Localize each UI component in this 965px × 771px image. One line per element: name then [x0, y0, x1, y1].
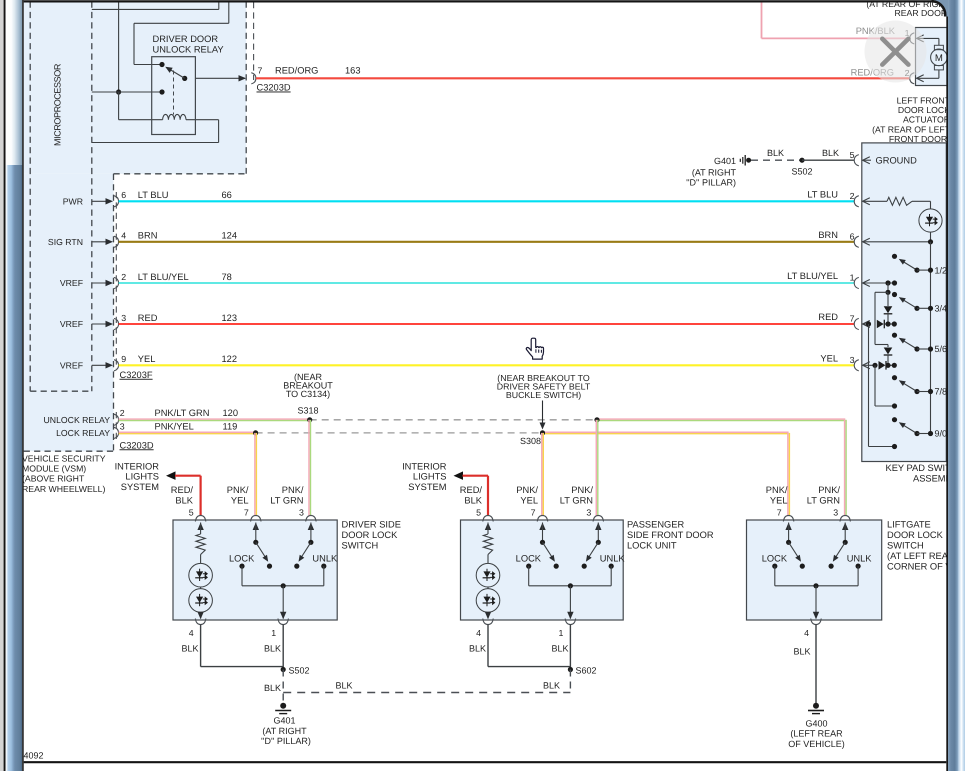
- arrow VREF to connector: [92, 280, 113, 286]
- svg-text:5: 5: [189, 507, 194, 517]
- wire label BLK liftgate: [793, 647, 810, 657]
- keypad switch 1/2 blade: [899, 259, 917, 270]
- keypad switch 5/6 blade: [899, 338, 917, 349]
- arrow VREF to connector: [92, 362, 113, 368]
- schematic top border: [24, 0, 933, 2]
- keypad pin7 wire: [863, 320, 897, 329]
- wire label BRN: [138, 231, 158, 241]
- svg-text:C3203D: C3203D: [257, 83, 291, 93]
- wire label YEL right: [820, 353, 838, 363]
- label driver side door lock switch: [342, 519, 401, 550]
- svg-text:REAR DOOR): REAR DOOR): [894, 8, 950, 18]
- relay K1 coil: [163, 114, 186, 119]
- svg-text:7: 7: [777, 507, 782, 517]
- wire label BLK run (2): [543, 681, 560, 691]
- passenger door lock unit lamp LED 2: [476, 555, 500, 613]
- VSM dashed border step: [114, 173, 247, 175]
- keypad switch 3/4 blade: [899, 297, 917, 308]
- svg-text:LT GRN: LT GRN: [270, 495, 303, 505]
- ground G400: [808, 703, 824, 714]
- pin 6 keypad label: [850, 231, 855, 241]
- wire label RED: [138, 313, 158, 323]
- ground G401 mini symbol: [740, 155, 751, 166]
- splice S318 dashed segment: [310, 419, 597, 421]
- svg-text:BLK: BLK: [822, 148, 839, 158]
- svg-text:VEHICLE SECURITY: VEHICLE SECURITY: [22, 454, 106, 464]
- passenger door lock unit pin 5 entry arrow: [485, 523, 491, 535]
- wire BLK dashed G401 to S502: [751, 159, 802, 161]
- svg-text:SIDE FRONT DOOR: SIDE FRONT DOOR: [627, 530, 714, 540]
- hand cursor: [526, 338, 543, 359]
- passenger door lock unit pin 5 label: [476, 507, 481, 517]
- pin 9 label: [121, 354, 126, 364]
- wire PNK/YEL 119 segment 1: [119, 432, 256, 434]
- relay K1 contact output: [182, 76, 187, 81]
- wire label LT BLU right: [807, 189, 838, 199]
- wire RED 123: [119, 323, 855, 325]
- svg-text:YEL: YEL: [231, 495, 249, 505]
- wire PNK/LT GRN drop liftgate: [845, 420, 847, 516]
- svg-text:LOCK: LOCK: [516, 554, 542, 564]
- wire from above to relay switch (L path): [134, 2, 229, 65]
- node PNK/LT GRN passenger branch: [594, 417, 599, 422]
- svg-text:BLK: BLK: [543, 681, 560, 691]
- svg-text:SWITCH: SWITCH: [887, 541, 924, 551]
- label liftgate door lock switch: [887, 519, 965, 571]
- wire BLK S502 to keypad: [802, 159, 854, 161]
- keypad switch 3/4 lower contact: [914, 306, 933, 311]
- liftgate door lock switch LOCK pivot: [786, 540, 791, 545]
- wire relay common feed: [92, 91, 162, 93]
- relay K1 actuation dashed line: [173, 71, 175, 115]
- liftgate door lock switch UNLK contacts: [829, 564, 861, 569]
- label vehicle security module: [22, 454, 106, 494]
- microprocessor label: [53, 63, 63, 146]
- keypad pin 6 arrow: [863, 238, 870, 245]
- connector bracket pin 9: [114, 360, 119, 371]
- page number 4092: [24, 750, 44, 760]
- keypad connector bracket pin 7: [854, 318, 859, 329]
- driver door lock switch LOCK blade: [256, 542, 268, 561]
- keypad pin3 branch to 7/8 contact: [875, 365, 897, 408]
- keypad switch 1/2 lower contact: [914, 268, 933, 273]
- splice S308 node: [520, 430, 545, 446]
- splice S502: [281, 666, 310, 676]
- keypad label 3/4: [935, 304, 948, 314]
- keypad switch 7/8 blade: [899, 380, 917, 391]
- actuator M1 connector bracket pin 2: [910, 73, 915, 84]
- wire BLK driver pin1: [282, 625, 284, 670]
- connector bracket pin 3: [114, 318, 119, 329]
- driver door lock switch pin 7 entry arrow: [253, 523, 259, 543]
- keypad connector bracket pin 5: [854, 155, 859, 166]
- connector bracket pin 2 unlock: [114, 414, 119, 425]
- keypad connector bracket pin 1: [854, 277, 859, 288]
- svg-text:LIGHTS: LIGHTS: [125, 472, 159, 482]
- keypad switch 9/0 upper contact: [892, 417, 897, 422]
- VSM dashed border right edge lower: [113, 174, 115, 451]
- window chrome left outer black line: [4, 0, 6, 771]
- driver door lock switch lamp exit arrow: [197, 612, 203, 620]
- svg-text:163: 163: [345, 66, 361, 76]
- svg-text:GROUND: GROUND: [876, 156, 918, 166]
- wire label BLK driver 1: [264, 644, 281, 654]
- pin 3 label: [121, 313, 126, 323]
- driver door lock switch pin 1 label: [271, 628, 276, 638]
- svg-text:S502: S502: [289, 666, 310, 676]
- wire label BLK to G401: [264, 683, 281, 693]
- label G401 at right D pillar (bottom): [261, 716, 311, 747]
- svg-text:BLK: BLK: [181, 644, 198, 654]
- passenger door lock unit label LOCK: [516, 554, 542, 564]
- wire label PNK/YEL: [155, 422, 194, 432]
- keypad connector bracket pin 2: [854, 196, 859, 207]
- svg-text:BRN: BRN: [818, 230, 838, 240]
- label VREF pin 2: [60, 278, 83, 288]
- driver door lock switch pin 5 label: [189, 507, 194, 517]
- driver door lock switch label LOCK: [229, 554, 255, 564]
- svg-text:(AT RIGHT: (AT RIGHT: [262, 726, 307, 736]
- svg-text:BUCKLE SWITCH): BUCKLE SWITCH): [506, 390, 581, 400]
- svg-text:G401: G401: [273, 716, 295, 726]
- passenger door lock unit LOCK contacts: [526, 564, 559, 569]
- svg-text:7: 7: [244, 507, 249, 517]
- liftgate door lock switch UNLK pivot: [843, 540, 848, 545]
- keypad switch 3/4 upper contact: [892, 292, 897, 297]
- wire label BLK passenger 4: [469, 644, 486, 654]
- passenger door lock unit box: [461, 520, 624, 620]
- svg-text:INTERIOR: INTERIOR: [115, 461, 160, 471]
- svg-text:2: 2: [120, 408, 125, 418]
- arrow to S308: [540, 401, 546, 430]
- connector C3203F label: [120, 370, 153, 380]
- keypad resistor R1: [863, 197, 931, 209]
- pin 3 keypad label: [850, 355, 855, 365]
- svg-text:S502: S502: [791, 167, 812, 177]
- actuator M1 wires to motor: [938, 38, 940, 78]
- circuit number 119: [223, 422, 238, 432]
- connector C3203F dashed lead-line: [115, 192, 117, 369]
- connector bracket pin 6: [114, 196, 119, 207]
- actuator M1 box: [916, 28, 956, 86]
- keypad long left bus: [869, 324, 898, 449]
- circuit number 78: [222, 272, 232, 282]
- wire label RED/ORG right: [851, 68, 894, 78]
- svg-text:3: 3: [586, 507, 591, 517]
- svg-text:PNK/YEL: PNK/YEL: [155, 422, 194, 432]
- wire label PNK/BLK: [856, 26, 896, 36]
- driver door lock switch pin 3 label: [299, 507, 304, 517]
- liftgate door lock switch LOCK blade: [789, 542, 801, 561]
- svg-text:RED: RED: [818, 312, 838, 322]
- arrow VREF to connector: [92, 321, 113, 327]
- pin 2 label: [121, 272, 126, 282]
- keypad pin 1 arrow: [863, 280, 870, 287]
- svg-text:TO C3134): TO C3134): [286, 389, 330, 399]
- svg-text:2: 2: [121, 272, 126, 282]
- svg-text:LOCK UNIT: LOCK UNIT: [627, 541, 677, 551]
- liftgate door lock switch pin 3 label: [833, 507, 838, 517]
- pin 3 label lock: [120, 422, 125, 432]
- svg-text:(ABOVE RIGHT: (ABOVE RIGHT: [22, 474, 85, 484]
- window chrome rounded top-right corner: [932, 0, 949, 17]
- keypad connector bracket pin 6: [854, 236, 859, 247]
- svg-text:SYSTEM: SYSTEM: [408, 482, 446, 492]
- liftgate door lock switch LOCK contacts: [772, 564, 805, 569]
- svg-text:S308: S308: [520, 436, 541, 446]
- pin 7 label: [258, 66, 263, 76]
- wire LT BLU 66: [119, 200, 855, 202]
- label PNK/LT GRN passenger: [560, 485, 594, 505]
- wire PNK/LT GRN 120 segment 1: [119, 419, 310, 421]
- svg-text:UNLK: UNLK: [600, 554, 626, 564]
- svg-text:1/2: 1/2: [935, 265, 948, 275]
- connector bracket pin 2: [114, 277, 119, 288]
- connector C3203D lower label: [120, 440, 154, 450]
- label KEY PAD SWITCH ASSEMBLY: [886, 463, 965, 483]
- liftgate door lock switch label UNLK: [847, 554, 873, 564]
- wire label BLK run (1): [335, 681, 352, 691]
- svg-text:BLK: BLK: [469, 644, 486, 654]
- keypad switch 5/6 upper contact: [892, 333, 897, 338]
- wire label PNK/LT GRN: [155, 408, 210, 418]
- label PWR pin 6: [63, 196, 83, 206]
- label right rear door actuator (clipped): [866, 0, 950, 18]
- wire label RED/ORG: [275, 66, 318, 76]
- svg-text:PNK/: PNK/: [571, 485, 593, 495]
- driver door lock switch output bus: [242, 566, 324, 619]
- svg-text:UNLK: UNLK: [312, 554, 338, 564]
- svg-text:LIGHTS: LIGHTS: [413, 472, 447, 482]
- driver door lock switch pin 7 label: [244, 507, 249, 517]
- svg-text:5: 5: [850, 150, 855, 160]
- wire label LT BLU/YEL right: [787, 271, 838, 281]
- driver door lock switch pin 3 entry arrow: [308, 523, 314, 543]
- svg-text:LT BLU: LT BLU: [138, 190, 169, 200]
- svg-text:YEL: YEL: [820, 353, 838, 363]
- pin 2 keypad label: [850, 191, 855, 201]
- svg-text:7/8: 7/8: [935, 387, 948, 397]
- svg-text:(AT LEFT REAR: (AT LEFT REAR: [887, 551, 955, 561]
- wire BLK passenger pin1: [569, 625, 571, 670]
- pin 2 label actuator: [905, 68, 910, 78]
- vehicle security module VSM outline (upper region fill): [24, 2, 247, 174]
- svg-text:SYSTEM: SYSTEM: [121, 482, 159, 492]
- wire LT BLU/YEL 78: [119, 282, 855, 284]
- svg-text:1: 1: [271, 628, 276, 638]
- driver door lock switch box: [173, 520, 337, 620]
- svg-text:3: 3: [120, 422, 125, 432]
- svg-text:PWR: PWR: [63, 196, 83, 206]
- svg-text:DOOR LOCK: DOOR LOCK: [887, 530, 944, 540]
- svg-text:7: 7: [850, 314, 855, 324]
- passenger door lock unit UNLK pivot: [596, 540, 601, 545]
- passenger door lock unit connector pin 1: [565, 619, 575, 625]
- circuit number 120: [223, 408, 239, 418]
- svg-text:VREF: VREF: [60, 319, 83, 329]
- driver door lock switch LOCK contacts: [239, 564, 272, 569]
- svg-text:''D'' PILLAR): ''D'' PILLAR): [686, 178, 736, 188]
- svg-text:YEL: YEL: [138, 354, 156, 364]
- passenger door lock unit lamp resistor: [483, 534, 492, 555]
- keypad switch 9/0 blade: [899, 422, 917, 433]
- driver door lock switch pin 4 label: [189, 628, 194, 638]
- svg-text:(LEFT REAR: (LEFT REAR: [790, 729, 843, 739]
- label near breakout to C3134: [283, 372, 333, 416]
- svg-text:G401: G401: [714, 156, 736, 166]
- wire PNK/YEL 119 segment 2: [543, 432, 789, 434]
- svg-text:4: 4: [121, 231, 126, 241]
- svg-text:SIG RTN: SIG RTN: [48, 237, 83, 247]
- wire coil feed: [119, 92, 163, 120]
- svg-text:BLK: BLK: [335, 681, 352, 691]
- svg-text:DOOR LOCK: DOOR LOCK: [898, 105, 950, 115]
- wire RED/BLK passenger to interior lights: [454, 471, 489, 515]
- label VREF pin 3: [60, 319, 83, 329]
- liftgate door lock switch connector pin 7: [783, 515, 793, 521]
- VSM dashed border right edge upper: [245, 2, 247, 174]
- svg-text:REAR WHEELWELL): REAR WHEELWELL): [22, 484, 105, 494]
- actuator M1 motor circle: [931, 49, 948, 66]
- passenger door lock unit connector pin 3: [593, 515, 603, 521]
- label PNK/YEL liftgate: [766, 485, 788, 505]
- ground G401 bottom: [275, 703, 291, 714]
- window chrome left scrollbar thumb (lower): [6, 165, 23, 771]
- actuator M1 pin1 arrow: [917, 35, 939, 42]
- passenger door lock unit label UNLK: [600, 554, 626, 564]
- keypad connector bracket pin 3: [854, 360, 859, 371]
- connector C3203D dashed lead-line: [253, 2, 255, 80]
- wire BLK passenger pin4: [488, 625, 570, 667]
- driver door lock switch connector pin 5: [195, 515, 205, 521]
- svg-text:1: 1: [558, 628, 563, 638]
- svg-text:UNLOCK RELAY: UNLOCK RELAY: [153, 44, 224, 54]
- svg-text:MICROPROCESSOR: MICROPROCESSOR: [53, 63, 63, 146]
- pin 7 keypad label: [850, 314, 855, 324]
- keypad switch 5/6 lower contact: [914, 346, 933, 351]
- passenger door lock unit LOCK pivot: [540, 540, 545, 545]
- svg-text:BLK: BLK: [175, 495, 193, 505]
- svg-text:RED/ORG: RED/ORG: [275, 66, 318, 76]
- keypad switch 1/2 upper contact: [892, 254, 897, 259]
- keypad switch 7/8 upper contact: [892, 375, 897, 380]
- keypad label 5/6: [935, 344, 948, 354]
- svg-text:PNK/: PNK/: [818, 485, 840, 495]
- wire PNK/YEL drop driver: [255, 433, 257, 516]
- VSM dashed border bottom edge: [24, 450, 114, 452]
- liftgate door lock switch pin 1 label: [804, 628, 809, 638]
- driver door lock switch connector pin 3: [306, 515, 316, 521]
- actuator M1 connector bracket pin 1: [910, 33, 915, 44]
- wire label RED right: [818, 312, 838, 322]
- liftgate door lock switch UNLK blade: [833, 542, 845, 561]
- label PNK/LT GRN liftgate: [807, 485, 841, 505]
- keypad pin 7 arrow: [863, 321, 870, 328]
- svg-text:RED/: RED/: [460, 485, 483, 495]
- driver door lock switch lamp LED 2: [189, 555, 213, 613]
- svg-text:3: 3: [833, 507, 838, 517]
- keypad pin1 wire: [863, 280, 898, 285]
- passenger door lock unit pin 3 label: [586, 507, 591, 517]
- passenger door lock unit UNLK contacts: [582, 564, 614, 569]
- wire from above to microprocessor (upper U): [92, 2, 219, 10]
- label passenger side front door lock unit: [627, 519, 714, 550]
- svg-text:LIFTGATE: LIFTGATE: [887, 519, 931, 529]
- window chrome left inner black line: [22, 0, 24, 771]
- passenger door lock unit connector pin 7: [537, 515, 547, 521]
- passenger door lock unit connector pin 4: [483, 619, 493, 625]
- wire BRN 124: [119, 241, 855, 243]
- schematic bottom border: [24, 761, 947, 763]
- svg-text:122: 122: [222, 354, 238, 364]
- svg-text:BLK: BLK: [551, 644, 568, 654]
- passenger door lock unit output bus: [529, 566, 612, 619]
- relay K1 DRIVER DOOR UNLOCK RELAY label: [153, 34, 224, 54]
- relay K1 contact common: [159, 89, 164, 94]
- svg-text:(AT REAR OF LEFT: (AT REAR OF LEFT: [872, 124, 951, 134]
- passenger door lock unit pin 3 entry arrow: [595, 523, 601, 543]
- label PNK/YEL passenger: [516, 485, 538, 505]
- svg-text:BLK: BLK: [767, 148, 784, 158]
- wire label BLK (2): [822, 148, 839, 158]
- svg-text:5: 5: [476, 507, 481, 517]
- wire PNK/YEL drop passenger: [542, 433, 544, 516]
- svg-text:DRIVER DOOR: DRIVER DOOR: [153, 34, 219, 44]
- svg-text:6: 6: [850, 231, 855, 241]
- splice S502 (top): [791, 158, 812, 177]
- liftgate door lock switch box: [747, 520, 882, 620]
- splice S602: [568, 666, 597, 676]
- svg-text:9/0: 9/0: [935, 429, 948, 439]
- circuit number 66: [222, 190, 232, 200]
- svg-text:S602: S602: [576, 666, 597, 676]
- wire vertical into relay junction: [118, 2, 120, 93]
- label UNLOCK RELAY: [44, 415, 111, 425]
- svg-text:LOCK RELAY: LOCK RELAY: [56, 428, 110, 438]
- wire BLK liftgate pin4: [815, 625, 817, 704]
- svg-text:VREF: VREF: [60, 278, 83, 288]
- label RED/BLK passenger: [460, 485, 483, 505]
- driver door lock switch connector pin 7: [251, 515, 261, 521]
- wire label YEL: [138, 354, 156, 364]
- window chrome right scrollbar strip: [948, 0, 965, 771]
- svg-text:YEL: YEL: [520, 495, 538, 505]
- svg-text:''D'' PILLAR): ''D'' PILLAR): [261, 736, 311, 746]
- liftgate door lock switch connector pin 3: [840, 515, 850, 521]
- svg-text:6: 6: [121, 190, 126, 200]
- driver door lock switch UNLK pivot: [308, 540, 313, 545]
- wire label BRN right: [818, 230, 838, 240]
- wire PNK/YEL drop liftgate: [788, 433, 790, 516]
- label interior lights system passenger: [402, 461, 447, 492]
- svg-text:4: 4: [189, 628, 194, 638]
- connector C3203D bracket pin 7: [251, 73, 256, 84]
- wire label BLK driver 4: [181, 644, 198, 654]
- svg-text:9: 9: [121, 354, 126, 364]
- wire coil return: [92, 120, 219, 143]
- keypad LED to BRN bus: [930, 232, 932, 242]
- svg-text:66: 66: [222, 190, 232, 200]
- svg-text:DOOR LOCK: DOOR LOCK: [342, 530, 399, 540]
- svg-text:MODULE (VSM): MODULE (VSM): [22, 464, 86, 474]
- node junction at relay feed: [116, 89, 121, 94]
- svg-text:RED/: RED/: [171, 485, 194, 495]
- label SIG RTN pin 4: [48, 237, 83, 247]
- driver door lock switch connector pin 1: [278, 619, 288, 625]
- keypad label 9/0: [935, 429, 948, 439]
- passenger door lock unit lamp LED 1: [476, 563, 500, 587]
- svg-text:G400: G400: [805, 718, 827, 728]
